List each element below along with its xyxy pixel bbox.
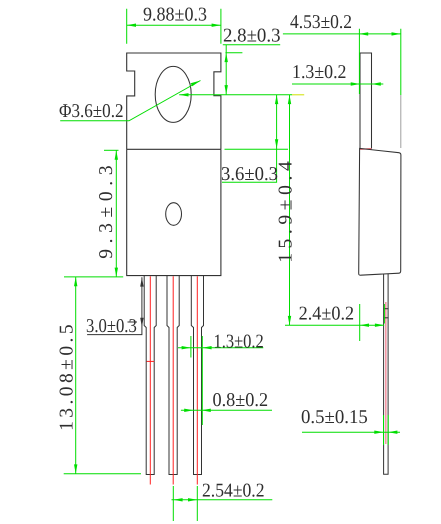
- front view body outline: [127, 149, 221, 275]
- mounting hole ellipse: [155, 66, 191, 122]
- dimension 1.3 mid arrows: [182, 346, 212, 349]
- dimension 15.9 line: [289, 95, 291, 325]
- dimension 2.4 line: [285, 324, 384, 326]
- svg-text:3.0±0.3: 3.0±0.3: [86, 316, 137, 337]
- dimension 2.8 line: [225, 45, 227, 95]
- dimension 3.0 arrows: [140, 277, 143, 327]
- side view lead: [384, 274, 389, 474]
- dimension 9.88 arrows: [127, 24, 221, 27]
- dimension 9.88 extension lines: [127, 9, 221, 44]
- side view tab-body red seam: [360, 148, 372, 150]
- lead 1 red centerline: [149, 276, 151, 484]
- dimension 9.88 line: [127, 24, 221, 26]
- svg-text:4.53±0.2: 4.53±0.2: [290, 12, 352, 33]
- lead 2 red centerline: [172, 276, 174, 484]
- svg-text:2.4±0.2: 2.4±0.2: [299, 304, 355, 325]
- side view body: [359, 148, 401, 275]
- dimension 2.4 extension line: [359, 304, 361, 341]
- dimension 2.8 underline: [223, 44, 280, 46]
- svg-text:9.88±0.3: 9.88±0.3: [143, 5, 207, 26]
- dimension 2.54 extension lines: [173, 486, 197, 521]
- dimension 9.3 top tick: [104, 149, 119, 151]
- svg-text:13.08±0.5: 13.08±0.5: [56, 324, 77, 431]
- hole leader line: [60, 81, 200, 121]
- dimension 1.3 mid line: [178, 347, 263, 349]
- lead 3 red centerline: [196, 276, 198, 484]
- dimension 2.4 arrows: [360, 324, 385, 327]
- dimension 4.53 arrows: [359, 32, 401, 35]
- dimension 2.8 top tick: [225, 52, 242, 54]
- side lead red centerline: [385, 302, 387, 444]
- dimension 1.3 top line: [292, 83, 383, 85]
- side lead black tick 2: [383, 317, 388, 319]
- dimension 1.3 mid extension lines: [191, 336, 202, 425]
- hole center line left arrow: [179, 93, 188, 96]
- dimension 3.0 small tick: [128, 321, 138, 323]
- svg-text:3.6±0.3: 3.6±0.3: [221, 164, 278, 185]
- front view tab outline: [127, 53, 221, 149]
- dimension 0.8 arrows: [184, 409, 211, 412]
- dimension 2.8 arrows: [225, 53, 228, 95]
- svg-text:0.5±0.15: 0.5±0.15: [301, 407, 368, 428]
- dimension 2.54 arrows: [173, 498, 197, 501]
- dimension 3.6 body tick: [225, 148, 289, 150]
- lead 1 red tick: [147, 360, 155, 362]
- dimension 0.8 line: [181, 409, 272, 411]
- hole leader arrow: [191, 81, 201, 87]
- lead 1 outline: [144, 276, 156, 475]
- side view tab: [360, 53, 372, 148]
- svg-text:1.3±0.2: 1.3±0.2: [292, 62, 347, 83]
- dimension 9.3 arrows: [115, 150, 118, 277]
- dimension 4.53 extension lines: [359, 29, 400, 95]
- dimension 2.54 line: [172, 499, 273, 501]
- svg-text:Φ3.6±0.2: Φ3.6±0.2: [59, 101, 124, 122]
- dimension 13.08 arrows: [74, 277, 77, 474]
- svg-text:9.3±0.3: 9.3±0.3: [96, 165, 117, 258]
- svg-text:0.8±0.2: 0.8±0.2: [213, 390, 269, 411]
- svg-text:15.9±0.4: 15.9±0.4: [276, 161, 297, 263]
- dimension 3.6 line: [222, 95, 277, 183]
- dimension 3.0 black line: [87, 277, 142, 334]
- shared extension tick at body bottom: [64, 276, 123, 278]
- dimension 13.08 line: [75, 277, 77, 474]
- dimension 13.08 bottom tick: [64, 473, 141, 475]
- dimension 3.6 arrows: [275, 95, 278, 149]
- small body hole ellipse: [166, 203, 182, 226]
- svg-text:1.3±0.2: 1.3±0.2: [214, 331, 264, 352]
- lead 3 outline: [191, 276, 203, 475]
- dimension 2.4 lead edge overlay: [383, 304, 385, 324]
- dimension 4.53 right extension lower gray part: [400, 95, 402, 148]
- dimension 1.3 top arrows: [351, 82, 381, 85]
- dimension 0.5 line: [302, 431, 400, 433]
- dimension 0.5 extension lines: [384, 415, 389, 445]
- dimension 0.5 arrows: [374, 431, 397, 434]
- svg-text:2.8±0.3: 2.8±0.3: [223, 26, 281, 47]
- hole center line: [179, 94, 292, 96]
- dimension 9.3 line: [115, 150, 117, 277]
- svg-text:2.54±0.2: 2.54±0.2: [202, 481, 265, 502]
- hole center line yellow end: [292, 94, 304, 96]
- dimension 15.9 arrows: [288, 95, 291, 325]
- side lead black tick 1: [383, 308, 388, 310]
- lead 2 outline: [167, 276, 179, 475]
- dimension 4.53 line: [283, 33, 401, 35]
